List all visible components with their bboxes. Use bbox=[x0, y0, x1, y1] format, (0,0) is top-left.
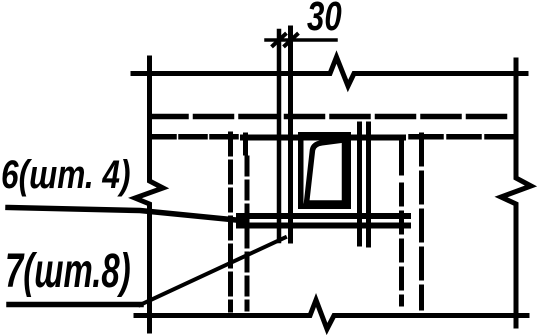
dashed vertical hidden line x230 bbox=[228, 134, 233, 310]
frame bottom line with break bbox=[136, 300, 527, 329]
inner bottom edge bbox=[308, 200, 344, 205]
lower dashed horizontal line right segment bbox=[411, 134, 514, 140]
horizontal plate edge through centre bbox=[243, 135, 403, 141]
frame right line with break bbox=[501, 60, 531, 326]
left pair vertical bars bbox=[277, 31, 282, 241]
label 6 (шт. 4) bbox=[1, 153, 131, 198]
right pair vertical bars bbox=[357, 124, 362, 244]
dashed vertical hidden line x421 bbox=[419, 135, 424, 308]
upper dashed horizontal line bbox=[150, 114, 513, 120]
leader line for label 7 bbox=[9, 302, 141, 308]
label 7 (шт. 8) bbox=[5, 244, 131, 299]
solid corner then dashed vertical x245 bbox=[243, 135, 248, 153]
double horizontal plate lines bbox=[239, 213, 408, 219]
leader line for label 6 bbox=[8, 208, 246, 222]
centre column square outline bbox=[301, 135, 349, 207]
lower dashed horizontal line left segment bbox=[150, 134, 241, 140]
dimension line bbox=[266, 38, 336, 42]
frame left line with break bbox=[135, 58, 163, 331]
frame top line with break bbox=[133, 57, 526, 86]
solid corner then dashed vertical x401 bbox=[399, 139, 404, 173]
inner right edge bbox=[342, 142, 347, 200]
inner quadrilateral slanted edges bbox=[307, 140, 348, 204]
dimension text 30 bbox=[307, 0, 342, 40]
dimension tick left bbox=[273, 35, 285, 46]
dimension tick right bbox=[285, 35, 297, 46]
